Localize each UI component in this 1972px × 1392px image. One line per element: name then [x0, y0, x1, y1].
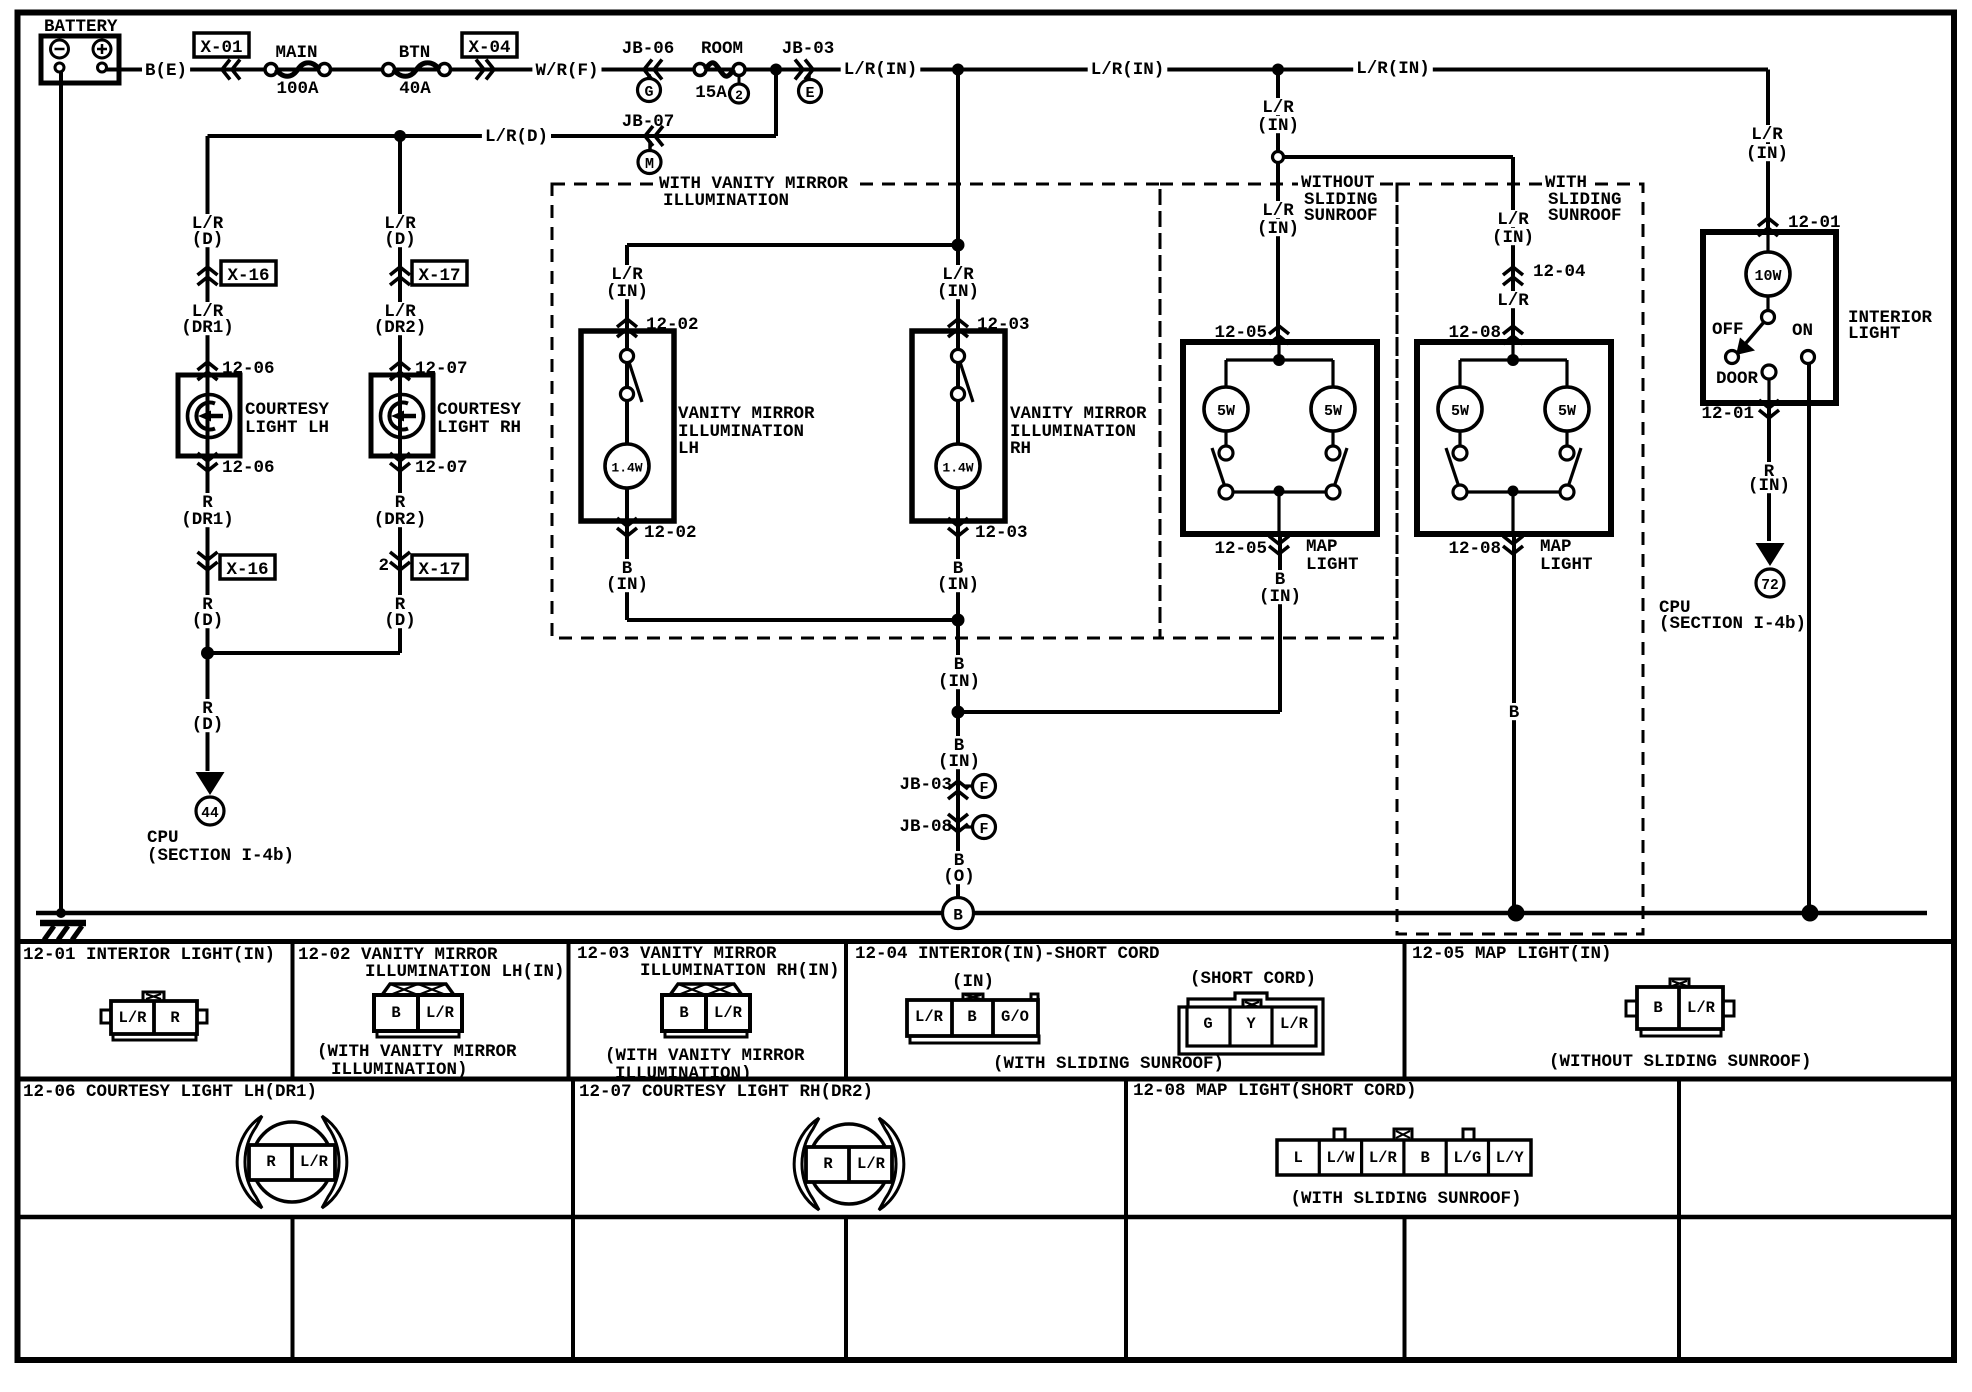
- label (IN): [952, 972, 994, 992]
- connector icon 12-08: [1277, 1129, 1531, 1175]
- label B (IN) vanity LH: [603, 559, 651, 595]
- connector X-16 lower: [198, 552, 276, 580]
- svg-text:G/O: G/O: [1001, 1008, 1029, 1026]
- label B(E): [142, 61, 190, 81]
- svg-text:OFF: OFF: [1712, 320, 1744, 340]
- label R (D) LH: [189, 595, 227, 631]
- connector table grid: [15, 942, 1951, 1358]
- node junction dot ON wire on bus: [1802, 905, 1819, 922]
- svg-text:B: B: [967, 1008, 976, 1026]
- connector X-17 upper: [390, 261, 467, 286]
- svg-text:X-16: X-16: [226, 560, 268, 580]
- label B (IN) 2: [935, 736, 983, 772]
- svg-text:(D): (D): [192, 230, 224, 250]
- svg-text:L/R: L/R: [1369, 1149, 1398, 1167]
- connector 12-07 lower: [390, 453, 468, 478]
- svg-text:ON: ON: [1792, 321, 1813, 341]
- svg-text:LIGHT: LIGHT: [1540, 555, 1593, 575]
- svg-text:G: G: [644, 84, 653, 101]
- label R (DR1): [178, 493, 237, 530]
- svg-text:M: M: [645, 156, 654, 173]
- svg-text:JB-03: JB-03: [782, 39, 835, 59]
- svg-text:L/R: L/R: [119, 1009, 148, 1027]
- connector icon 12-06: [237, 1116, 347, 1208]
- svg-text:CPU: CPU: [147, 828, 179, 848]
- ground symbol: [40, 923, 86, 940]
- node junction dot courtesy RH: [394, 130, 406, 142]
- wire battery ground (left vertical): [59, 72, 63, 911]
- svg-text:12-04: 12-04: [1533, 262, 1586, 282]
- map light 12-05 (without sliding sunroof): [1183, 342, 1377, 534]
- svg-text:2: 2: [378, 556, 389, 576]
- svg-text:(WITH SLIDING SUNROOF): (WITH SLIDING SUNROOF): [1290, 1189, 1521, 1209]
- svg-text:L/R: L/R: [1751, 125, 1783, 145]
- svg-text:L/R: L/R: [714, 1004, 743, 1022]
- label L/R(IN) 2: [1088, 60, 1168, 80]
- junction JB-06 to G: [622, 39, 675, 101]
- label R (DR2): [371, 493, 430, 530]
- dashed box WITHOUT SLIDING SUNROOF: [1160, 173, 1397, 638]
- fuse BTN 40A: [383, 43, 451, 99]
- svg-text:L/R(IN): L/R(IN): [1356, 59, 1430, 79]
- svg-text:12-02: 12-02: [644, 523, 697, 543]
- svg-text:(SHORT CORD): (SHORT CORD): [1190, 969, 1316, 989]
- svg-text:L/R(IN): L/R(IN): [1091, 60, 1165, 80]
- label L/R (DR2): [371, 302, 430, 338]
- svg-text:ROOM: ROOM: [701, 39, 743, 59]
- svg-text:(O): (O): [943, 867, 975, 887]
- svg-text:L/R: L/R: [1280, 1015, 1309, 1033]
- svg-text:X-17: X-17: [418, 560, 460, 580]
- junction JB-08 to F lower: [899, 814, 995, 839]
- label (WITH SLIDING SUNROOF) 12-04: [993, 1054, 1224, 1074]
- node junction dot map light feed: [1272, 64, 1284, 76]
- svg-text:B: B: [679, 1004, 688, 1022]
- connector icon 12-01: [101, 992, 207, 1040]
- wire L/R(D) branch: [208, 70, 777, 137]
- svg-text:B: B: [953, 907, 963, 925]
- label BATTERY: [44, 17, 118, 37]
- svg-text:(IN): (IN): [938, 752, 980, 772]
- label L/R short cord: [1494, 291, 1532, 311]
- label MAP LIGHT 12-05: [1306, 537, 1359, 575]
- svg-text:(DR1): (DR1): [181, 318, 234, 338]
- svg-text:MAIN: MAIN: [275, 43, 317, 63]
- svg-text:MAP: MAP: [1306, 537, 1338, 557]
- label INTERIOR LIGHT: [1848, 308, 1933, 344]
- svg-text:12-05: 12-05: [1214, 539, 1267, 559]
- svg-text:L: L: [1294, 1149, 1303, 1167]
- svg-text:(D): (D): [192, 611, 224, 631]
- svg-text:JB-03: JB-03: [899, 775, 952, 795]
- svg-text:(IN): (IN): [606, 282, 648, 302]
- svg-text:L/R: L/R: [1497, 210, 1529, 230]
- label L/R(IN) 1: [841, 60, 921, 80]
- svg-text:LIGHT: LIGHT: [1306, 555, 1359, 575]
- svg-text:12-04 INTERIOR(IN)-SHORT CORD: 12-04 INTERIOR(IN)-SHORT CORD: [855, 944, 1160, 964]
- table header 12-05 MAP LIGHT(IN): [1412, 944, 1612, 964]
- svg-text:(D): (D): [384, 611, 416, 631]
- junction JB-03 to E: [782, 39, 835, 102]
- svg-text:JB-08: JB-08: [899, 817, 952, 837]
- svg-text:(IN): (IN): [606, 575, 648, 595]
- svg-text:(IN): (IN): [937, 282, 979, 302]
- svg-text:RH: RH: [1010, 439, 1031, 459]
- label (SHORT CORD): [1190, 969, 1316, 989]
- label L/R(IN) 3: [1353, 59, 1433, 79]
- label L/R (D) LH: [189, 214, 227, 250]
- svg-text:X-01: X-01: [200, 38, 242, 58]
- arrow to CPU 72: [1756, 543, 1785, 566]
- wire 12-05 B out: [1278, 534, 1282, 712]
- label (WITH VANITY MIRROR ILLUMINATION) 12-03: [605, 1046, 805, 1084]
- svg-text:(IN): (IN): [952, 972, 994, 992]
- svg-text:12-07 COURTESY LIGHT RH(DR2): 12-07 COURTESY LIGHT RH(DR2): [579, 1082, 873, 1102]
- svg-text:LIGHT LH: LIGHT LH: [245, 418, 329, 438]
- label MAP LIGHT 12-08: [1540, 537, 1593, 575]
- label L/R(D): [482, 127, 551, 147]
- svg-text:SUNROOF: SUNROOF: [1304, 206, 1378, 226]
- svg-text:ILLUMINATION LH(IN): ILLUMINATION LH(IN): [365, 962, 565, 982]
- connector 12-06 lower: [198, 453, 275, 478]
- svg-text:(DR1): (DR1): [181, 510, 234, 530]
- map light 12-08 (with sliding sunroof): [1417, 342, 1611, 534]
- svg-text:R: R: [823, 1155, 833, 1173]
- node junction dot main/JB-07: [770, 64, 782, 76]
- svg-text:L/R: L/R: [1262, 201, 1294, 221]
- junction JB-03 to F upper: [899, 775, 995, 800]
- junction JB-07 to M: [622, 112, 675, 173]
- svg-text:(WITH VANITY MIRROR: (WITH VANITY MIRROR: [317, 1042, 517, 1062]
- table header 12-03 VANITY MIRROR ILLUMINATION RH(IN): [577, 944, 840, 981]
- svg-text:B(E): B(E): [145, 61, 187, 81]
- courtesy light RH: [371, 375, 433, 456]
- svg-text:1.4W: 1.4W: [942, 461, 973, 476]
- svg-text:Y: Y: [1246, 1015, 1256, 1033]
- svg-text:(IN): (IN): [1746, 144, 1788, 164]
- svg-text:JB-06: JB-06: [622, 39, 675, 59]
- svg-text:44: 44: [201, 806, 219, 822]
- connector X-17 lower pin 2: [378, 552, 467, 580]
- node junction dot B map light join: [952, 706, 965, 719]
- svg-text:VANITY MIRROR: VANITY MIRROR: [678, 404, 815, 424]
- table header 12-01 INTERIOR LIGHT(IN): [23, 945, 275, 965]
- svg-text:12-05 MAP LIGHT(IN): 12-05 MAP LIGHT(IN): [1412, 944, 1612, 964]
- node junction dot battery ground: [56, 908, 66, 918]
- svg-text:F: F: [979, 780, 988, 797]
- connector 12-07 upper: [390, 359, 468, 380]
- connector 12-05 lower: [1214, 536, 1289, 559]
- battery: [41, 36, 119, 83]
- label R (IN): [1745, 462, 1793, 496]
- label (WITHOUT SLIDING SUNROOF): [1549, 1052, 1812, 1072]
- label (WITH SLIDING SUNROOF) 12-08: [1290, 1189, 1521, 1209]
- label W/R(F): [532, 61, 601, 81]
- label B (IN) vanity RH: [934, 559, 982, 595]
- connector 12-03 lower: [948, 518, 1028, 543]
- svg-text:12-08 MAP LIGHT(SHORT CORD): 12-08 MAP LIGHT(SHORT CORD): [1133, 1081, 1417, 1101]
- svg-text:LH: LH: [678, 439, 699, 459]
- label L/R (IN) vanity RH: [934, 265, 982, 302]
- svg-text:E: E: [805, 85, 814, 102]
- svg-text:(IN): (IN): [1259, 587, 1301, 607]
- label OFF: [1712, 320, 1744, 340]
- table header 12-06 COURTESY LIGHT LH(DR1): [23, 1082, 317, 1102]
- svg-text:B: B: [1509, 703, 1520, 723]
- svg-text:G: G: [1203, 1015, 1212, 1033]
- vanity mirror illumination RH switch+lamp: [912, 331, 1005, 521]
- label R (D) to CPU: [189, 699, 227, 735]
- svg-text:L/R: L/R: [1687, 999, 1716, 1017]
- svg-text:12-06: 12-06: [222, 458, 275, 478]
- svg-text:(D): (D): [384, 230, 416, 250]
- svg-text:(D): (D): [192, 715, 224, 735]
- interior light unit: [1703, 232, 1836, 403]
- node open circle map feed split: [1273, 152, 1284, 163]
- svg-text:(DR2): (DR2): [374, 318, 427, 338]
- node circled 44: [196, 797, 224, 825]
- svg-text:15A: 15A: [695, 83, 727, 103]
- svg-text:DOOR: DOOR: [1716, 369, 1759, 389]
- fuse MAIN 100A: [265, 43, 331, 99]
- svg-text:(IN): (IN): [1257, 219, 1299, 239]
- svg-text:COURTESY: COURTESY: [437, 400, 522, 420]
- svg-text:(WITHOUT SLIDING SUNROOF): (WITHOUT SLIDING SUNROOF): [1549, 1052, 1812, 1072]
- wire B(E)/W/R(F)/L-R(IN) main feed: [106, 70, 1768, 233]
- svg-text:(IN): (IN): [1257, 116, 1299, 136]
- svg-text:ILLUMINATION): ILLUMINATION): [331, 1060, 468, 1080]
- label L/R (D) RH: [381, 214, 419, 250]
- connector X-01: [194, 33, 249, 80]
- label L/R (IN) interior: [1743, 125, 1791, 164]
- svg-text:X-16: X-16: [227, 266, 269, 286]
- svg-text:VANITY MIRROR: VANITY MIRROR: [1010, 404, 1147, 424]
- svg-text:72: 72: [1761, 578, 1778, 594]
- table header 12-08 MAP LIGHT(SHORT CORD): [1133, 1081, 1417, 1101]
- svg-text:L/G: L/G: [1453, 1149, 1481, 1167]
- connector icon 12-02: [374, 984, 462, 1037]
- svg-text:BTN: BTN: [399, 43, 431, 63]
- wire ground bus: [36, 911, 1927, 916]
- label B (O): [940, 851, 978, 887]
- svg-text:X-17: X-17: [418, 266, 460, 286]
- svg-text:L/R: L/R: [1497, 291, 1529, 311]
- node junction dot 12-08 B on bus: [1508, 905, 1525, 922]
- table header 12-02 VANITY MIRROR ILLUMINATION LH(IN): [298, 945, 565, 982]
- wire vanity feed: [627, 70, 958, 621]
- connector icon 12-03: [662, 984, 750, 1037]
- label R (D) RH: [381, 595, 419, 631]
- connector X-04: [462, 33, 517, 80]
- connector 12-08 upper: [1448, 323, 1523, 344]
- label VANITY MIRROR ILLUMINATION RH: [1010, 404, 1147, 459]
- label COURTESY LIGHT RH: [437, 400, 522, 438]
- svg-text:L/R: L/R: [857, 1155, 886, 1173]
- connector 12-03 upper: [948, 315, 1030, 337]
- label DOOR: [1716, 369, 1759, 389]
- svg-text:B: B: [1420, 1149, 1429, 1167]
- label L/R (IN) map feed 1: [1254, 98, 1302, 136]
- connector 12-06 upper: [198, 359, 275, 380]
- svg-text:ILLUMINATION): ILLUMINATION): [615, 1064, 752, 1084]
- wire courtesy light RH branch: [208, 136, 401, 653]
- svg-text:LIGHT: LIGHT: [1848, 324, 1901, 344]
- svg-text:W/R(F): W/R(F): [535, 61, 598, 81]
- connector 12-02 lower: [617, 518, 697, 543]
- svg-text:L/R: L/R: [1262, 98, 1294, 118]
- svg-text:(WITH VANITY MIRROR: (WITH VANITY MIRROR: [605, 1046, 805, 1066]
- connector 12-01 upper: [1758, 213, 1841, 236]
- svg-text:L/W: L/W: [1327, 1149, 1356, 1167]
- label L/R (IN) vanity LH: [603, 265, 651, 302]
- label L/R (IN) map feed 2: [1254, 201, 1302, 239]
- svg-text:12-06 COURTESY LIGHT LH(DR1): 12-06 COURTESY LIGHT LH(DR1): [23, 1082, 317, 1102]
- connector X-16 upper: [198, 261, 277, 286]
- connector icon 12-04 SHORT CORD: [1179, 993, 1323, 1054]
- label CPU SECTION I-4b right: [1659, 598, 1806, 634]
- svg-text:BATTERY: BATTERY: [44, 17, 118, 37]
- label L/R (DR1): [178, 302, 237, 338]
- svg-text:(WITH SLIDING SUNROOF): (WITH SLIDING SUNROOF): [993, 1054, 1224, 1074]
- connector 12-04 chevron: [1503, 262, 1586, 285]
- arrow to CPU 44: [196, 772, 225, 795]
- connector 12-01 lower: [1701, 400, 1779, 424]
- svg-text:L/Y: L/Y: [1496, 1149, 1525, 1167]
- label VANITY MIRROR ILLUMINATION LH: [678, 404, 815, 459]
- wire B(IN) return to ground: [958, 620, 1280, 898]
- svg-text:JB-07: JB-07: [622, 112, 675, 132]
- svg-text:12-08: 12-08: [1448, 539, 1501, 559]
- svg-text:L/R: L/R: [426, 1004, 455, 1022]
- svg-text:SUNROOF: SUNROOF: [1548, 206, 1622, 226]
- svg-text:5W: 5W: [1558, 403, 1576, 420]
- svg-text:10W: 10W: [1754, 268, 1781, 285]
- connector icon 12-07: [794, 1118, 904, 1210]
- svg-text:MAP: MAP: [1540, 537, 1572, 557]
- svg-text:100A: 100A: [276, 79, 319, 99]
- wire courtesy light LH branch: [206, 136, 210, 771]
- connector 12-08 lower: [1448, 536, 1523, 559]
- wire 12-08 B to ground bus: [1512, 534, 1516, 913]
- connector 12-05 upper: [1214, 323, 1289, 344]
- courtesy light LH: [178, 375, 240, 456]
- node junction dot vanity feed: [952, 64, 964, 76]
- label L/R (IN) short cord: [1489, 210, 1537, 248]
- fuse ROOM 15A: [694, 39, 749, 103]
- node circled 72: [1756, 569, 1784, 597]
- wire interior ON to ground bus: [1807, 363, 1811, 913]
- svg-text:B: B: [1653, 999, 1662, 1017]
- svg-text:COURTESY: COURTESY: [245, 400, 330, 420]
- svg-text:L/R: L/R: [915, 1008, 944, 1026]
- svg-text:40A: 40A: [399, 79, 431, 99]
- label B map 12-08: [1506, 703, 1523, 723]
- label CPU SECTION I-4b left: [147, 828, 294, 866]
- connector icon 12-05: [1626, 979, 1734, 1036]
- label (WITH VANITY MIRROR ILLUMINATION) 12-02: [317, 1042, 517, 1080]
- svg-text:R: R: [266, 1153, 276, 1171]
- node circled B on ground bus: [943, 898, 974, 929]
- svg-text:(SECTION I-4b): (SECTION I-4b): [1659, 614, 1806, 634]
- svg-text:L/R(D): L/R(D): [485, 127, 548, 147]
- svg-text:5W: 5W: [1324, 403, 1342, 420]
- wire R(IN) to CPU: [1767, 403, 1771, 541]
- svg-text:(IN): (IN): [1748, 476, 1790, 496]
- wire map light 12-08 feed: [1282, 157, 1513, 342]
- svg-text:LIGHT RH: LIGHT RH: [437, 418, 521, 438]
- label B (IN) map 12-05: [1256, 570, 1304, 607]
- table header 12-07 COURTESY LIGHT RH(DR2): [579, 1082, 873, 1102]
- node junction dot vanity split: [952, 239, 965, 252]
- wire map light 12-05 feed: [1276, 70, 1280, 343]
- svg-text:ILLUMINATION: ILLUMINATION: [663, 191, 789, 211]
- svg-text:12-03: 12-03: [975, 523, 1028, 543]
- svg-text:5W: 5W: [1217, 403, 1235, 420]
- svg-text:5W: 5W: [1451, 403, 1469, 420]
- svg-text:L/R(IN): L/R(IN): [844, 60, 918, 80]
- svg-text:(SECTION I-4b): (SECTION I-4b): [147, 846, 294, 866]
- svg-text:B: B: [391, 1004, 400, 1022]
- dashed box WITH SLIDING SUNROOF: [1397, 173, 1643, 934]
- svg-text:X-04: X-04: [468, 38, 510, 58]
- label ON: [1792, 321, 1813, 341]
- label B (IN) below vanity box: [935, 655, 983, 692]
- connector 12-02 upper: [617, 315, 699, 337]
- svg-text:12-01: 12-01: [1701, 404, 1754, 424]
- svg-text:(IN): (IN): [1492, 228, 1534, 248]
- node junction dot R(D): [201, 647, 214, 660]
- svg-text:F: F: [979, 821, 988, 838]
- vanity mirror illumination LH switch+lamp: [581, 331, 674, 521]
- svg-text:(IN): (IN): [937, 575, 979, 595]
- svg-text:12-01 INTERIOR LIGHT(IN): 12-01 INTERIOR LIGHT(IN): [23, 945, 275, 965]
- svg-text:L/R: L/R: [300, 1153, 329, 1171]
- svg-text:ILLUMINATION RH(IN): ILLUMINATION RH(IN): [640, 961, 840, 981]
- svg-text:(IN): (IN): [938, 672, 980, 692]
- svg-text:1.4W: 1.4W: [611, 461, 642, 476]
- connector icon 12-04 IN: [907, 994, 1039, 1043]
- dashed box WITH VANITY MIRROR ILLUMINATION: [552, 174, 1160, 638]
- svg-text:R: R: [170, 1009, 180, 1027]
- table header 12-04 INTERIOR(IN)-SHORT CORD: [855, 944, 1160, 964]
- svg-text:(DR2): (DR2): [374, 510, 427, 530]
- label COURTESY LIGHT LH: [245, 400, 330, 438]
- svg-text:12-07: 12-07: [415, 458, 468, 478]
- svg-text:2: 2: [735, 88, 743, 103]
- node junction dot vanity B join: [952, 614, 965, 627]
